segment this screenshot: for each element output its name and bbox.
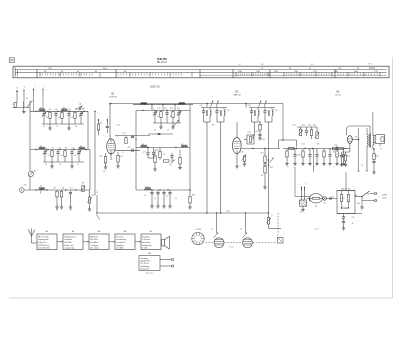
plug ground [302,206,304,208]
svg-text:1: 1 [35,86,36,88]
osc ground left [160,123,162,126]
power block output wire 2 [160,265,172,267]
osc bottom tie wire [153,122,181,124]
heater rail resistor R35 [333,147,339,149]
AGC line junction dots [206,212,207,213]
svg-text:C14: C14 [57,147,60,149]
AVC vertical wire [96,195,98,213]
svg-text:452: 452 [260,125,263,127]
svg-text:2 kringen: 2 kringen [90,245,98,247]
svg-text:C4: C4 [96,192,98,194]
resistor chain R4 [74,111,76,112]
ground under bus2 left [51,162,53,165]
osc top stubs [151,105,153,111]
block diagram stage B7 box [141,234,161,250]
svg-text:R16: R16 [170,108,173,110]
detector lower wire [264,178,266,186]
svg-text:R11: R11 [100,123,103,125]
coil S4 [39,148,46,149]
svg-text:S9: S9 [181,144,183,146]
IF transformer S13 top wire [249,107,275,109]
svg-text:S1: S1 [26,98,28,100]
page scan right edge [392,57,394,298]
svg-text:2: 2 [44,86,45,88]
trimmer chain C12 [80,111,82,112]
svg-text:afgestemde: afgestemde [38,238,49,241]
svg-text:50c/s: 50c/s [382,198,387,200]
svg-text:boven ont-: boven ont- [64,244,74,247]
gang feed wire 2 [245,213,247,233]
trimmer C8 [78,107,80,110]
cathode RC R29 [344,155,346,161]
gain potentiometer R1 [28,171,33,176]
svg-text:1n: 1n [56,126,58,128]
svg-text:1: 1 [104,136,105,138]
osc padder C24 [146,152,149,154]
svg-text:C9: C9 [43,109,45,111]
osc chains grounds [151,203,153,205]
IFT2 tuning arrow a [259,101,262,108]
svg-text:12: 12 [167,130,169,132]
svg-text:3n: 3n [154,198,156,200]
oscillator box left wire [135,110,137,190]
svg-text:S13: S13 [247,105,250,107]
bypass cap C41 [372,160,375,162]
osc ground right [172,123,174,126]
svg-text:220V: 220V [382,194,387,196]
svg-text:met AVC: met AVC [116,247,124,250]
osc top coil S8a [141,104,148,105]
svg-text:Mengbuis en: Mengbuis en [64,236,75,238]
svg-text:R8: R8 [62,188,64,190]
heater rail wire [283,148,350,150]
svg-text:UAF 42: UAF 42 [233,93,241,96]
svg-text:2n: 2n [77,164,79,166]
svg-text:S8: S8 [142,144,144,146]
trimmer block right of gang [278,238,284,244]
svg-text:C23: C23 [176,108,179,110]
top rail feed wire [369,126,371,134]
svg-text:C37: C37 [336,154,339,156]
psu left feed wire [295,196,309,198]
dial drive pulley [192,232,204,244]
svg-text:17 9: 17 9 [368,64,372,66]
osc mid cluster stub [154,150,156,157]
dashed rod vertical [277,213,279,240]
capacitor chain C11 [68,111,70,112]
left corner stamp mark [9,58,14,63]
block diagram stage B1 box [37,234,57,250]
IFT1 primary coil [209,108,211,110]
osc trimmer chain C21 [154,110,156,111]
detector chain capacitor C35 [263,163,266,165]
mains switch SK1 [362,191,370,197]
svg-text:C11: C11 [68,109,71,111]
anode wire to transformer [352,139,358,141]
svg-text:Eindtrap: Eindtrap [142,235,150,238]
tube B3 cathode wire [349,143,351,152]
left rail wire [29,101,31,172]
anode bypass R30 [373,154,375,160]
dial scale left end marks [14,68,16,77]
osc cap chain C26 [151,190,153,191]
dial scale inner line 2 [16,71,387,73]
detector branch dots [268,159,269,160]
IFT1 tuning arrow b [216,101,219,108]
AF load resistor R27 [289,147,295,149]
resistor chain R7 [56,190,58,191]
svg-text:4 7: 4 7 [239,64,242,66]
svg-text:6: 6 [117,136,118,138]
common AGC line wire [97,212,268,214]
IFT2 primary feed wire [254,122,256,135]
svg-text:E1: E1 [332,197,334,199]
osc bus3 dots [151,189,152,190]
svg-text:R14: R14 [119,156,122,158]
svg-text:afvlakking: afvlakking [140,266,149,268]
svg-text:452: 452 [212,125,215,127]
svg-text:belasting: belasting [142,241,150,244]
svg-text:8: 8 [123,152,124,154]
screen resistor R11 [97,124,99,130]
pilot lamp E1 [323,197,327,201]
svg-text:UL 41: UL 41 [335,94,342,96]
coil S5 [79,148,86,149]
osc bus 3 wire [136,189,190,191]
svg-text:R5: R5 [52,147,54,149]
ballast leads [307,197,310,199]
svg-text:S2: S2 [40,108,42,110]
resistor chain R8 [61,190,63,191]
osc cap chain C29 [169,190,171,191]
svg-text:S5: S5 [80,146,82,148]
svg-text:70: 70 [135,139,137,141]
svg-text:C30: C30 [226,110,229,112]
svg-text:R9: R9 [82,182,84,184]
svg-text:R30: R30 [375,156,378,158]
svg-text:R7: R7 [54,188,56,190]
svg-text:LW: LW [339,68,342,70]
trimmer chain C16 [78,150,80,151]
oscillator top coil line [133,104,193,106]
block arrow B6 to next [135,241,141,243]
svg-text:S4: S4 [40,146,42,148]
svg-text:50: 50 [70,210,72,212]
IFT2 secondary capacitor C34 [264,108,266,111]
svg-text:R4: R4 [75,109,77,111]
IFT1 secondary capacitor C31 [216,108,218,111]
gang right branch resistor R23 [267,218,269,225]
VDR box outline [337,191,355,214]
svg-text:3n: 3n [75,126,77,128]
ground under bus2 right [71,162,73,165]
svg-text:4 W max.: 4 W max. [142,239,151,241]
ground under bus1 left [49,124,51,127]
AF resistor R25 [310,130,312,136]
svg-text:174 A: 174 A [369,67,375,70]
svg-text:50k: 50k [292,149,295,151]
osc resistor R17 [159,152,161,158]
svg-text:30: 30 [46,117,48,119]
svg-text:S14: S14 [354,137,357,139]
svg-text:HF versterk.: HF versterk. [38,235,49,238]
svg-text:C38: C38 [343,208,346,210]
svg-text:~: ~ [300,186,301,188]
svg-text:R31: R31 [341,198,344,200]
svg-text:R18: R18 [192,195,195,197]
block arrow B2 to next [83,241,89,243]
svg-text:C24: C24 [142,152,145,154]
svg-text:C39: C39 [351,217,354,219]
oscillator box right wire [189,105,191,190]
IFT1 secondary bottom tie [217,121,224,123]
resistor R10 diag [88,197,90,203]
box top rail [337,190,355,192]
svg-text:S10: S10 [145,186,148,188]
gang feed wire 1 [216,213,218,233]
band bus 1 wire [30,110,88,112]
svg-text:25: 25 [43,126,45,128]
svg-text:Voeding:: Voeding: [140,258,148,260]
grid coupling box S12 [247,135,254,144]
tube B1 cathode wire [110,151,112,160]
svg-text:b: b [306,184,307,186]
junction dots bus3 [35,189,36,190]
lamp to box wire [326,197,337,199]
svg-text:110/220 V: 110/220 V [140,269,150,271]
trimmer chain C13 [44,150,46,151]
loudspeaker symbol [376,135,385,144]
AF stage top wire [297,126,317,128]
svg-text:R17: R17 [156,150,159,152]
receiving aerial symbol [31,236,33,243]
heater long drop wire [313,149,315,173]
svg-text:C2: C2 [211,229,213,231]
svg-text:150-345 kHz: 150-345 kHz [38,248,49,250]
svg-text:naar net: naar net [146,271,153,274]
mains lead wires [301,187,303,201]
dial scale inner line 1 [16,68,387,70]
IFT1 primary capacitor C30 [203,108,205,111]
oscillator top bus wire [136,109,190,111]
svg-text:50: 50 [361,165,363,167]
svg-text:UY 41 en: UY 41 en [140,263,148,265]
AF wire step [279,139,297,141]
resistor R12 [125,138,127,144]
svg-text:R22: R22 [270,167,273,169]
block diagram loudspeaker [162,240,165,246]
switch terminal wire lower [362,200,375,202]
svg-text:oscillator: oscillator [64,238,72,241]
resistor chain R3 [61,111,63,112]
VDR box resistor Ra [340,195,342,202]
svg-text:gelijkrichter: gelijkrichter [140,260,150,263]
IFT2 primary capacitor C33 [251,108,253,111]
block arrow B1 to next [57,241,63,243]
capacitor chain C15 [71,150,73,151]
osc padder C25 [152,152,155,154]
output top bend [347,126,351,135]
anode load wire [115,135,150,137]
cathode resistor R20 [243,156,245,162]
detector chain resistor R21 [264,156,266,163]
IFT2 secondary bottom tie [265,121,272,123]
coupling capacitor C20 [131,149,133,152]
svg-text:vangst freq.: vangst freq. [64,247,75,250]
AVC diag tick [96,215,100,220]
svg-text:R15: R15 [157,108,160,110]
IFT2 primary coil [257,108,259,110]
svg-text:1 6: 1 6 [261,64,264,66]
svg-text:C3: C3 [240,229,242,231]
antenna series capacitor C1 [14,103,16,108]
B plus drop wire [282,104,284,141]
small cap C43 [329,197,331,200]
band arrow b [42,89,44,96]
junction dots bus2 [35,149,36,150]
screen resistor R19 [259,125,261,131]
mains plug [300,200,307,206]
svg-text:C17: C17 [69,188,72,190]
osc capacitor chain C22 [166,110,168,111]
svg-text:5n: 5n [308,149,310,151]
secondary top feed wire [372,112,374,132]
left block lower rail wire [94,111,96,195]
svg-text:C36: C36 [308,125,311,127]
svg-text:R10: R10 [91,195,94,197]
block diagram stage B2 box [63,234,83,250]
svg-text:40: 40 [157,116,159,118]
svg-text:C1: C1 [12,104,14,106]
svg-text:KW: KW [48,68,51,70]
svg-text:452 kHz: 452 kHz [64,242,71,244]
osc resistor R18 [189,197,191,204]
ground under bus1 right [68,124,70,127]
gang tuning arrow 1 [214,233,219,239]
svg-text:5 ohm: 5 ohm [142,248,148,250]
svg-text:90: 90 [163,154,165,156]
svg-text:C40: C40 [292,125,295,127]
wave switch blade [27,101,33,108]
dial scale long ticks [40,73,380,77]
svg-text:L1: L1 [380,149,382,151]
gang right branch bend wire [268,224,270,229]
svg-text:versterking: versterking [116,238,126,241]
svg-text:C21: C21 [150,108,153,110]
svg-text:2n: 2n [166,196,168,198]
IFT1 primary feed wire [206,122,208,213]
IF transformer S11 top wire [201,107,227,109]
cathode bias network diag arrow [242,155,247,161]
grid capacitor C18 [106,125,109,127]
svg-text:B5 UY 41: B5 UY 41 [342,188,352,190]
junction dot under tube [110,153,111,154]
tube B2 cathode wire [236,150,238,164]
resistor chain R6 [64,150,66,151]
VDR box resistor Rb [347,195,349,202]
dial scale tick clusters [40,73,380,75]
svg-text:S6: S6 [40,186,42,188]
svg-text:C15: C15 [71,147,74,149]
svg-text:R6: R6 [65,147,67,149]
svg-text:R2: R2 [49,109,51,111]
osc coil S8 [141,146,148,147]
osc resistor chain R15 [160,110,162,111]
bus2 bottom tie wire [43,161,84,163]
variable resistor R9 [82,186,84,192]
page scan bottom edge [9,297,393,299]
psu feed bend [308,197,310,202]
svg-text:C20: C20 [127,147,130,149]
antenna coil S1 [23,101,24,107]
tube B2 anode junction dot [252,148,253,149]
block diagram stage B3 box [89,234,109,250]
tuning gang rotor C2 b [243,238,253,248]
power block output wire 1 [160,259,172,261]
svg-text:50: 50 [175,198,177,200]
band arrow a [33,89,35,96]
switch chassis ground [361,201,363,207]
screen cap C32 [258,133,261,135]
svg-text:en sterkte: en sterkte [116,241,126,244]
resistor chain R5 [51,150,53,151]
right rail of RF block [87,111,89,149]
tube B3 envelope [348,136,353,144]
AF cap C36 [305,130,308,132]
VDR box inner marks [341,207,342,208]
svg-text:80: 80 [74,155,76,157]
detector chain resistor R22 [264,167,266,174]
svg-text:R1: R1 [34,171,36,173]
osc bus2 dots [147,147,148,148]
osc mid cluster resistor R33 [164,160,170,162]
antenna wire junction [13,107,30,109]
osc mid wire [148,133,173,135]
svg-text:PHILIPS: PHILIPS [157,57,167,61]
switch feed wire [355,196,362,198]
output transformer core [368,134,370,148]
ballast tube envelope [310,194,323,204]
svg-text:49m: 49m [103,68,107,70]
AF pot R26 [316,132,318,139]
capacitor chain C10 [55,111,57,112]
svg-text:0.05: 0.05 [301,144,305,146]
svg-text:kring 517-: kring 517- [38,242,47,244]
tube B2 top wire [236,130,238,138]
svg-text:C8: C8 [79,104,81,106]
svg-text:4k7: 4k7 [58,117,61,119]
svg-text:R12: R12 [122,133,125,135]
box top feed wire [345,172,347,191]
svg-text:R29: R29 [347,156,350,158]
coil S6 with arrows [39,189,46,190]
svg-text:452 kHz: 452 kHz [90,239,97,241]
IFT2 tuning arrow b [264,101,267,108]
tube B2 cathode ground [236,165,238,167]
osc mid cluster resistor R34 [179,158,181,165]
AF junction dots [296,148,297,149]
capacitor chain C14 [57,150,59,151]
svg-text:B5: B5 [315,206,317,208]
IFT2 primary bottom tie [252,121,259,123]
tube B2 envelope [232,138,241,154]
band bus 2 wire [30,149,90,151]
junction dots bus1 [35,111,36,112]
electrolytic chain C39 [343,214,345,217]
svg-text:40: 40 [154,130,156,132]
IFT1 tuning arrow a [211,101,214,108]
band bus 3 wire [24,189,90,191]
